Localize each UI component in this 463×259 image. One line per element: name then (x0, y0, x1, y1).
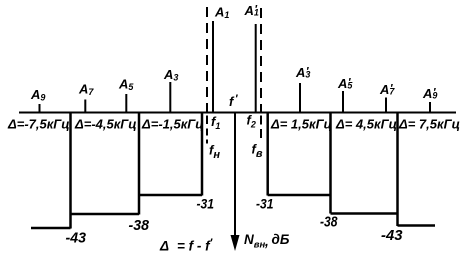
svg-text:fв: fв (252, 142, 263, 161)
spectral line A7 (84, 100, 86, 114)
svg-text:-38: -38 (320, 215, 338, 231)
noise axis arrowhead (231, 235, 240, 251)
svg-text:A5: A5 (118, 77, 134, 93)
svg-text:fн: fн (209, 143, 220, 162)
svg-text:A9: A9 (30, 87, 45, 103)
spectral line A3' (299, 83, 301, 113)
step boundary vertical at +1.5 kHz (266, 113, 269, 196)
level -31 right (268, 194, 331, 197)
svg-text:-43: -43 (381, 228, 403, 244)
svg-text:Δ= f - f′: Δ= f - f′ (159, 237, 214, 254)
svg-text:A1′: A1′ (244, 3, 259, 18)
svg-text:-43: -43 (66, 231, 87, 247)
step boundary vertical at +7.5 kHz (396, 113, 399, 226)
level -43 right (398, 224, 436, 227)
step boundary vertical at -7.5 kHz (69, 113, 72, 229)
svg-text:-38: -38 (129, 218, 150, 234)
level -38 left (71, 213, 140, 216)
svg-text:Δ= 7,5кГц: Δ= 7,5кГц (398, 117, 460, 132)
svg-text:Nвн,дБ: Nвн,дБ (244, 232, 290, 251)
svg-text:A7′: A7′ (379, 82, 395, 97)
level -43 left (31, 227, 71, 230)
step boundary vertical at +4.5 kHz (329, 113, 332, 214)
svg-text:f′: f′ (229, 93, 239, 109)
step boundary vertical at -1.5 kHz (201, 113, 204, 196)
step boundary vertical at -4.5 kHz (138, 113, 141, 215)
svg-text:Δ=-1,5кГц: Δ=-1,5кГц (141, 117, 204, 132)
svg-text:-31: -31 (197, 196, 215, 212)
dashed line f_v (260, 8, 262, 113)
svg-text:A3: A3 (163, 67, 178, 83)
svg-text:A7: A7 (78, 82, 94, 98)
spectral line A5 (125, 94, 127, 113)
svg-text:Δ= 1,5кГц: Δ= 1,5кГц (270, 117, 332, 132)
svg-text:Δ=-4,5кГц: Δ=-4,5кГц (74, 117, 137, 132)
spectral line A1 (212, 21, 214, 113)
svg-text:A9′: A9′ (422, 86, 437, 101)
spectral line A9' (429, 102, 431, 113)
svg-text:f2: f2 (247, 113, 256, 130)
spectral line A3 (169, 82, 171, 113)
svg-text:Δ=-7,5кГц: Δ=-7,5кГц (7, 117, 70, 132)
frequency axis (19, 112, 456, 114)
svg-text:A1: A1 (214, 5, 229, 21)
dashed line f_n (206, 7, 208, 113)
svg-text:A3′: A3′ (295, 65, 310, 80)
svg-text:-31: -31 (256, 196, 274, 212)
level -38 right (331, 212, 398, 215)
spectral line A5' (342, 91, 344, 113)
svg-text:f1: f1 (211, 114, 220, 131)
spectral line A1' (255, 24, 257, 113)
noise axis arrow (downwards) (234, 113, 236, 240)
level -31 left (139, 194, 202, 197)
spectral line A9 (39, 104, 41, 113)
svg-text:A5′: A5′ (337, 76, 353, 91)
svg-text:Δ= 4,5кГц: Δ= 4,5кГц (335, 117, 397, 132)
spectral line A7' (385, 98, 387, 114)
